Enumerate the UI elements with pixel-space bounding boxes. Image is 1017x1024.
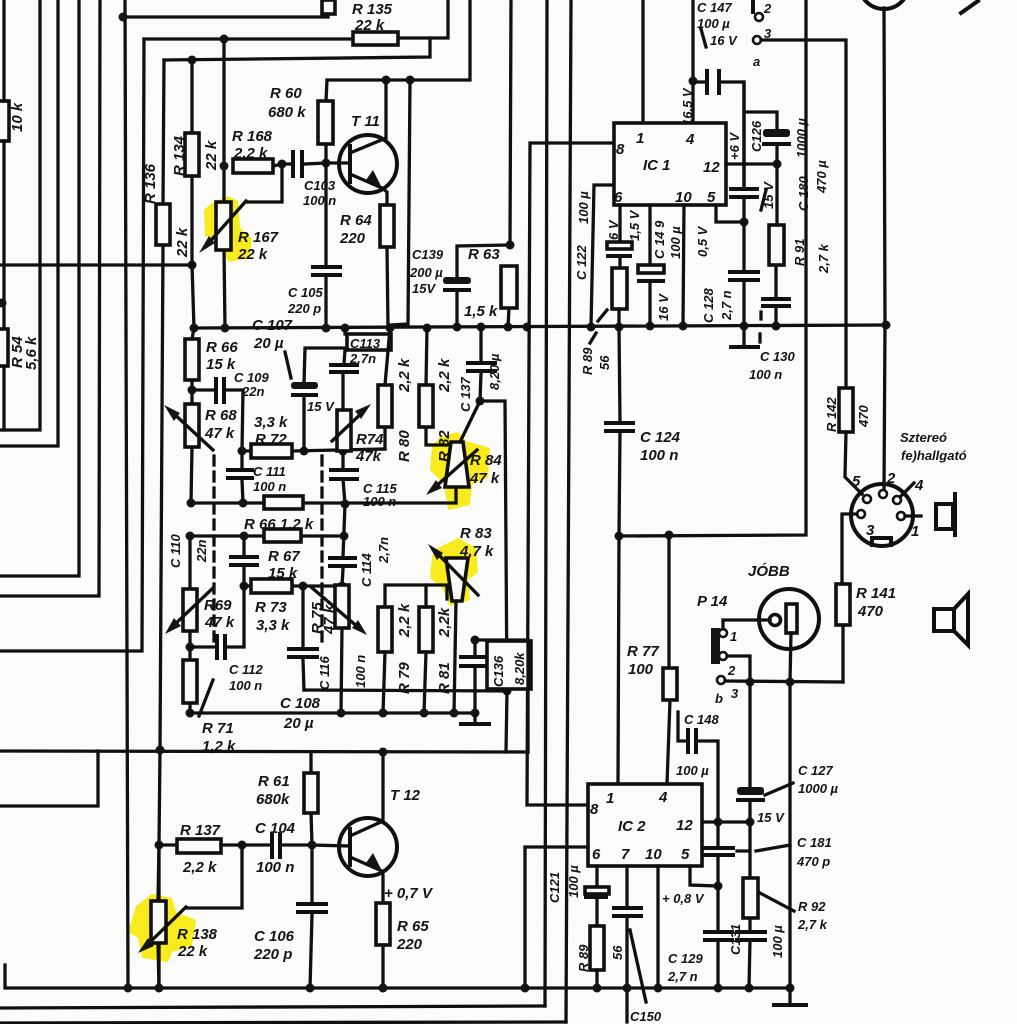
svg-text:Sztereó: Sztereó: [900, 430, 947, 445]
node 192,265: [188, 261, 197, 270]
wire row y451: [242, 449, 385, 451]
wire bus col x40: [0, 0, 40, 430]
node 159,845: [155, 841, 164, 850]
IC1 pin6 column cap: [618, 205, 621, 268]
svg-text:100 µ: 100 µ: [566, 865, 581, 898]
svg-text:1: 1: [636, 130, 644, 147]
ground below bus at col744: [742, 326, 745, 345]
pointer dashes R89: [590, 310, 607, 343]
wire col x548: [545, 0, 547, 1006]
svg-text:2: 2: [763, 1, 772, 16]
DIN pin 4: [893, 496, 901, 504]
svg-text:C 104: C 104: [255, 820, 296, 837]
terminal 2: [751, 0, 755, 12]
node 224,166: [220, 162, 229, 171]
resistor R79: [378, 607, 392, 652]
svg-text:2,2 k: 2,2 k: [436, 358, 453, 393]
potentiometer R75: [341, 585, 342, 713]
svg-text:R 61: R 61: [258, 773, 290, 790]
bus nodes: [190, 324, 199, 333]
svg-text:R 142: R 142: [824, 397, 839, 432]
svg-text:22 k: 22 k: [174, 227, 191, 258]
wire R60 bottom to base node: [324, 144, 327, 163]
node 750,682: [746, 678, 755, 687]
P14 terminal block: [711, 628, 720, 664]
svg-text:R 141: R 141: [856, 585, 896, 602]
node left edge y303: [0, 299, 7, 308]
svg-text:R 167: R 167: [238, 229, 279, 246]
svg-text:P 14: P 14: [697, 593, 728, 610]
potentiometer R138: [158, 845, 159, 988]
svg-text:47 k: 47 k: [204, 614, 235, 631]
node 383,752: [379, 748, 388, 757]
svg-text:0,5 V: 0,5 V: [695, 225, 710, 257]
node 303,586: [299, 582, 308, 591]
svg-text:100 n: 100 n: [749, 367, 782, 382]
wire IC2 pin5 jog: [690, 866, 718, 886]
wire C136 node loop to y752: [475, 640, 528, 752]
node 619,536: [615, 532, 624, 541]
capacitor C129: [716, 886, 719, 988]
capacitor C136: [473, 640, 476, 713]
svg-text:R 89: R 89: [580, 347, 595, 375]
svg-text:R 77: R 77: [627, 643, 659, 660]
potentiometer R167: [216, 202, 231, 250]
ground below C136: [473, 713, 476, 722]
svg-text:47k: 47k: [355, 448, 382, 465]
DIN pin 2: [879, 490, 887, 498]
svg-text:100 n: 100 n: [256, 859, 294, 876]
svg-text:22 k: 22 k: [203, 140, 220, 171]
node 343,451: [339, 447, 348, 456]
svg-text:680 k: 680 k: [268, 104, 306, 121]
capacitor C115: [331, 470, 357, 479]
capacitor on col744 upper: [742, 82, 745, 222]
resistor R82: [426, 328, 455, 445]
IC1 pin12 stub: [726, 162, 777, 165]
svg-text:470: 470: [857, 603, 884, 620]
node 312,845: [308, 841, 317, 850]
svg-text:5: 5: [681, 846, 690, 863]
svg-text:R 137: R 137: [180, 822, 221, 839]
speaker arrow fragment top right: [961, 1, 978, 13]
resistor R92: [748, 822, 751, 931]
svg-text:2: 2: [886, 470, 896, 487]
svg-text:5: 5: [852, 473, 861, 490]
node 718,886: [714, 882, 723, 891]
svg-text:C131: C131: [728, 924, 743, 955]
node 454,713: [450, 709, 459, 718]
node 123,17: [119, 13, 128, 22]
resistor R63: [508, 0, 511, 327]
transistor T11: [339, 135, 397, 193]
svg-text:R74: R74: [356, 431, 384, 448]
node 192,60: [188, 56, 197, 65]
svg-text:fe)hallgató: fe)hallgató: [901, 448, 967, 463]
svg-text:680k: 680k: [256, 791, 290, 808]
svg-text:R 65: R 65: [397, 918, 429, 935]
svg-text:2,7 k: 2,7 k: [797, 917, 828, 932]
capacitor C116: [303, 586, 304, 690]
main bus y328: [194, 325, 886, 328]
resistor R91: [776, 164, 777, 298]
svg-text:R 83: R 83: [460, 525, 492, 542]
svg-text:1,5 V: 1,5 V: [627, 209, 642, 241]
capacitor C114: [342, 504, 345, 586]
node 507,691: [503, 687, 512, 696]
svg-text:2,7 n: 2,7 n: [719, 290, 734, 321]
terminal box top: [322, 0, 335, 14]
node 242,845: [238, 841, 247, 850]
node 386,80: [382, 76, 391, 85]
svg-text:15 V: 15 V: [307, 399, 335, 414]
svg-text:200 µ: 200 µ: [409, 265, 443, 280]
svg-text:22 k: 22 k: [177, 943, 208, 960]
resistor R89 bottom: [590, 926, 604, 970]
svg-text:C 127: C 127: [798, 763, 833, 778]
wire horizontal y59 rail: [164, 38, 430, 60]
svg-text:R 92: R 92: [798, 899, 826, 914]
svg-text:C136: C136: [491, 655, 506, 687]
resistor on pin6 column: [612, 268, 627, 309]
node 693,81: [689, 77, 698, 86]
svg-text:47 k: 47 k: [469, 470, 500, 487]
svg-text:C 137: C 137: [458, 377, 473, 412]
bottom rail y1006: [0, 1006, 545, 1008]
svg-text:R 168: R 168: [232, 128, 273, 145]
svg-text:56: 56: [597, 355, 612, 370]
resistor R77: [667, 535, 670, 784]
svg-text:2,7n: 2,7n: [376, 537, 391, 564]
svg-text:100 n: 100 n: [229, 678, 262, 693]
capacitor C149: [648, 205, 651, 326]
dashed gang line left: [212, 456, 215, 645]
wire col x643 IC1 pin1 feed: [641, 0, 644, 123]
capacitor C110: [242, 536, 245, 586]
node 475,640: [471, 636, 480, 645]
svg-text:2,7 k: 2,7 k: [816, 243, 831, 274]
wire col x594 IC1 left stub: [591, 185, 614, 327]
node 777,164: [773, 160, 782, 169]
capacitor C104: [221, 843, 312, 846]
svg-text:R 71: R 71: [202, 720, 234, 737]
svg-text:22n: 22n: [194, 540, 209, 563]
svg-text:470: 470: [856, 405, 871, 428]
svg-text:C 108: C 108: [280, 695, 321, 712]
node 160,750: [156, 746, 165, 755]
P14 pin 3: [717, 676, 725, 684]
resistor R72: [251, 444, 292, 458]
op-amp IC2: [588, 784, 702, 866]
resistor R60: [318, 101, 333, 144]
wire bus col x58: [0, 0, 58, 446]
wire col x571: [566, 0, 571, 1022]
wire IC2 pin12 stub: [702, 820, 750, 823]
resistor R135: [353, 32, 398, 45]
wire long row y752: [0, 751, 528, 752]
potentiometer R69: [188, 536, 191, 647]
wire R138 branch: [186, 845, 242, 908]
highlight R138: [128, 894, 196, 962]
svg-text:C 111: C 111: [253, 464, 286, 479]
node 342,586: [338, 582, 347, 591]
node 244,536: [240, 532, 249, 541]
op-amp IC1: [614, 123, 726, 205]
node 424,713: [420, 709, 429, 718]
svg-text:16 V: 16 V: [656, 293, 671, 321]
svg-text:16 V: 16 V: [710, 33, 738, 48]
svg-text:100 n: 100 n: [640, 447, 678, 464]
P14 pin 1: [719, 629, 727, 637]
highlight R167: [204, 196, 252, 262]
svg-text:C 109: C 109: [234, 370, 269, 385]
svg-text:8,20 µ: 8,20 µ: [487, 353, 502, 390]
wire terminal3 to R142 col: [761, 40, 846, 388]
svg-text:1: 1: [730, 629, 737, 644]
svg-text:6 V: 6 V: [606, 219, 621, 240]
wire left L y806: [0, 751, 98, 806]
svg-text:100 n: 100 n: [303, 193, 336, 208]
node 790,682: [786, 678, 795, 687]
capacitor C107: [304, 348, 347, 451]
svg-text:22 k: 22 k: [237, 246, 268, 263]
node 475,713: [471, 709, 480, 718]
highlight R84: [430, 432, 490, 510]
svg-text:R 89: R 89: [576, 944, 591, 972]
svg-text:C 180: C 180: [796, 176, 811, 211]
node 304,451: [300, 447, 309, 456]
svg-text:+ 0,7 V: + 0,7 V: [384, 885, 434, 902]
svg-text:8,20k: 8,20k: [512, 652, 527, 685]
svg-text:20 µ: 20 µ: [253, 335, 284, 352]
svg-text:220 p: 220 p: [253, 946, 292, 963]
node 345,504: [341, 500, 350, 509]
svg-text:16,5 V: 16,5 V: [680, 87, 695, 126]
svg-text:100 µ: 100 µ: [576, 191, 591, 224]
wire row y713: [190, 711, 475, 714]
capacitor C128: [742, 222, 745, 326]
node 282,164: [278, 160, 287, 169]
svg-text:C 105: C 105: [288, 285, 323, 300]
resistor R54 (left edge, partial): [0, 329, 8, 366]
svg-text:12: 12: [703, 159, 720, 176]
wire C137 node right and down to y691: [480, 401, 507, 691]
svg-text:C 116: C 116: [317, 656, 332, 690]
svg-text:22 k: 22 k: [354, 17, 385, 34]
svg-text:R 64: R 64: [340, 212, 372, 229]
potentiometer R84: [445, 442, 469, 487]
svg-text:2,2 k: 2,2 k: [396, 358, 413, 393]
wire bus col x126: [125, 0, 128, 988]
svg-text:IC 1: IC 1: [643, 157, 671, 174]
wire IC2 pin10: [656, 866, 659, 988]
svg-text:C 122: C 122: [574, 245, 589, 280]
wire left col x4: [2, 0, 5, 430]
svg-text:3,3 k: 3,3 k: [254, 414, 288, 431]
node 242,451: [238, 447, 247, 456]
svg-text:C 128: C 128: [701, 288, 716, 323]
DIN connector: [851, 484, 913, 546]
wire row y690: [304, 690, 507, 691]
speaker top: [936, 504, 953, 529]
svg-text:100 µ: 100 µ: [770, 925, 785, 958]
svg-text:47 k: 47 k: [204, 425, 235, 442]
connector circle top right (partial): [859, 0, 909, 9]
node 510,245: [506, 241, 515, 250]
wire row y586: [244, 584, 342, 587]
svg-text:R 84: R 84: [470, 452, 502, 469]
node 243,503: [239, 499, 248, 508]
capacitor C139: [457, 245, 510, 327]
capacitor C105: [324, 163, 327, 328]
wire bus col x143: [0, 39, 144, 651]
svg-text:4: 4: [658, 789, 668, 806]
svg-text:3,3 k: 3,3 k: [256, 617, 290, 634]
svg-text:1: 1: [606, 790, 614, 807]
wire horizontal y80 rail: [326, 0, 470, 101]
resistor R71: [188, 647, 191, 713]
svg-text:8: 8: [616, 141, 625, 158]
resistor R80: [385, 328, 390, 449]
svg-text:C150: C150: [630, 1009, 662, 1024]
wire horizontal y265: [0, 263, 192, 266]
svg-text:R 135: R 135: [352, 1, 393, 18]
speaker bottom: [934, 609, 954, 631]
svg-text:C139: C139: [412, 247, 444, 262]
capacitor C137: [480, 327, 481, 401]
svg-text:100 n: 100 n: [353, 655, 368, 688]
wire row y585 R79 R81 tops: [385, 585, 447, 607]
transistor T12: [339, 818, 397, 876]
svg-text:2,2 k: 2,2 k: [182, 859, 217, 876]
wire R142 to DIN pin5: [845, 432, 862, 494]
svg-text:20 µ: 20 µ: [283, 715, 314, 732]
IC1 pin5 jog to C128 col: [716, 205, 744, 222]
highlight R83: [430, 538, 478, 606]
svg-text:R 60: R 60: [270, 85, 302, 102]
svg-text:IC 2: IC 2: [618, 818, 646, 835]
wire col x162 R136 chain: [159, 60, 164, 988]
bottom bus y988: [5, 965, 790, 988]
wire phono stem to bus: [788, 682, 791, 988]
bottom bus nodes: [124, 984, 133, 993]
svg-text:2,7 n: 2,7 n: [667, 969, 698, 984]
wire DIN pin2 col: [884, 8, 885, 490]
svg-text:470 p: 470 p: [796, 854, 830, 869]
svg-text:15V: 15V: [412, 281, 436, 296]
capacitor C103: [282, 163, 326, 164]
svg-text:22n: 22n: [241, 384, 264, 399]
resistor 10k (left edge, partial): [0, 101, 9, 141]
potentiometer R83: [446, 558, 468, 601]
capacitor C112: [190, 586, 244, 647]
resistor R141: [836, 584, 850, 625]
wire col x410: [390, 80, 410, 327]
resistor R76 upper: [264, 496, 303, 509]
resistor R64: [380, 205, 394, 247]
wire col x806: [619, 0, 806, 536]
wire R83 col down: [454, 601, 456, 713]
boxed label C136: [487, 641, 531, 689]
wire col x224 R167 chain: [224, 39, 225, 328]
svg-text:C 147: C 147: [697, 0, 732, 15]
capacitor C113 plates: [331, 365, 357, 372]
svg-text:C 181: C 181: [797, 835, 832, 850]
svg-text:4: 4: [914, 477, 924, 494]
svg-text:8: 8: [590, 801, 599, 818]
node 190,647: [186, 643, 195, 652]
wire IC2 pin6-row stub from bus: [525, 847, 588, 988]
capacitor C124: [619, 327, 620, 536]
resistor R66: [192, 328, 194, 390]
resistor R65: [376, 903, 390, 945]
svg-text:T 12: T 12: [390, 787, 421, 804]
svg-text:R 80: R 80: [396, 430, 413, 462]
node 190,536: [186, 532, 195, 541]
resistor R61: [311, 752, 312, 845]
resistor R168: [273, 164, 282, 166]
svg-text:10 k: 10 k: [9, 102, 26, 132]
svg-text:12: 12: [676, 817, 693, 834]
svg-text:C 106: C 106: [254, 928, 295, 945]
svg-text:R 72: R 72: [255, 431, 287, 448]
capacitor C147: [693, 82, 744, 187]
svg-text:1000 µ: 1000 µ: [798, 781, 839, 796]
svg-text:R 138: R 138: [177, 926, 218, 943]
node 244,586: [240, 582, 249, 591]
wire horizontal y39 top rail: [144, 0, 448, 39]
capacitor C106: [310, 845, 312, 988]
svg-text:C113: C113: [350, 336, 381, 351]
wire bus col x100: [0, 0, 100, 596]
svg-text:5,6 k: 5,6 k: [23, 336, 40, 370]
svg-text:15 k: 15 k: [206, 356, 236, 373]
node 344,536: [340, 532, 349, 541]
svg-text:100 µ: 100 µ: [676, 763, 709, 778]
terminal 3: [753, 36, 761, 44]
svg-text:3: 3: [731, 686, 739, 701]
svg-text:R 66: R 66: [206, 339, 238, 356]
DIN pin 3: [857, 510, 865, 518]
svg-text:100 n: 100 n: [253, 479, 286, 494]
potentiometer R74: [341, 373, 344, 469]
node 410,80: [406, 76, 415, 85]
svg-text:C126: C126: [749, 120, 764, 152]
svg-text:1,5 k: 1,5 k: [464, 303, 498, 320]
svg-text:C 110: C 110: [168, 534, 183, 568]
capacitor C109: [192, 390, 243, 451]
svg-text:R 67: R 67: [268, 548, 300, 565]
capacitor C127: [748, 682, 751, 822]
wire riser x506: [506, 691, 507, 752]
svg-text:7: 7: [621, 846, 630, 863]
wire row y536: [190, 534, 345, 537]
resistor R136: [156, 204, 170, 245]
svg-text:+ 0,8 V: + 0,8 V: [662, 891, 705, 906]
DIN pin 1: [897, 512, 905, 520]
capacitor C130: [763, 299, 789, 306]
svg-text:2,2 k: 2,2 k: [396, 603, 413, 638]
wire C137 node to R84: [461, 401, 480, 440]
node 480,401: [476, 397, 485, 406]
svg-text:JÓBB: JÓBB: [748, 562, 790, 580]
svg-text:100: 100: [628, 661, 654, 678]
svg-text:10: 10: [645, 846, 662, 863]
svg-text:C 124: C 124: [640, 429, 681, 446]
capacitor C121 on pin6: [595, 866, 598, 926]
svg-text:a: a: [753, 54, 760, 69]
resistor R76 lower: [264, 529, 301, 542]
